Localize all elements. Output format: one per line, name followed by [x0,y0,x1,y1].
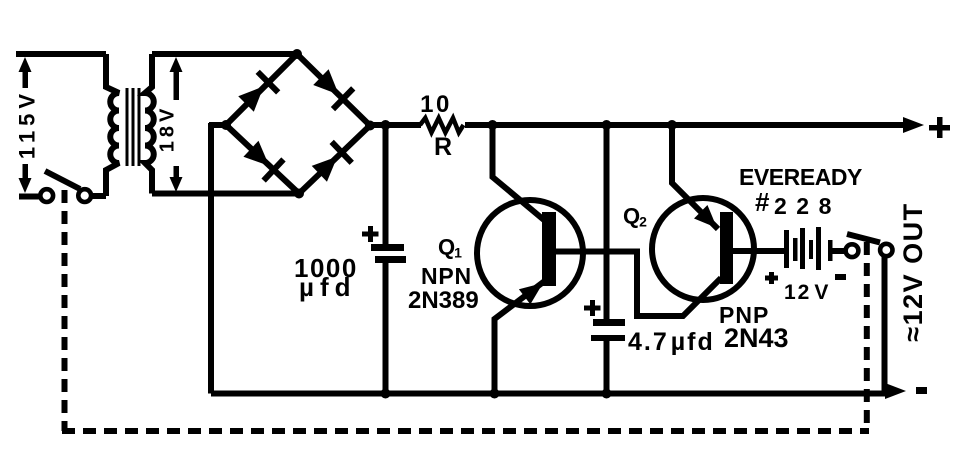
svg-text:2N43: 2N43 [724,323,789,353]
label + of C1 [362,226,379,242]
dashed gang line bottom horizontal [62,428,869,434]
label - of battery [835,274,846,280]
node: bridge bottom junction dot [294,189,304,199]
transistor Q2 circle [652,198,754,300]
svg-text:≈12V OUT: ≈12V OUT [898,202,928,341]
wire: Q2 emitter lead [672,125,718,229]
capacitor C2 4.7ufd top plate [593,319,625,326]
diode D2 (top to right) [311,67,356,112]
bridge rectifier: edge left-top [226,54,297,125]
wire: S1b to bottom rail [882,256,888,391]
node: C1 bottom junction dot [381,389,391,399]
transformer T1 primary winding [106,54,119,196]
switch S1a contact circle left [40,189,53,202]
wire: C1 bottom lead [383,263,389,394]
label - output [916,387,927,394]
output - arrowhead [885,383,906,399]
switch S1b contact circle right [880,244,892,256]
switch S1a contact circle right [78,189,91,202]
wire: battery to switch [832,248,845,254]
output + arrowhead [903,117,924,133]
bridge rectifier: edge left-bottom [226,125,299,194]
node: C2 bottom junction dot [602,389,612,399]
dimension arrow 18V lower [170,166,183,192]
wire: negative bus vertical (left) [208,123,214,394]
transformer T1 secondary winding [145,54,154,194]
Q1 emitter arrowhead [519,275,549,304]
wire: secondary bottom to bridge bottom node [152,191,299,197]
node: bridge left junction dot [221,120,231,130]
wire: bridge left node stub [209,122,226,128]
node: Q2 emitter junction dot [667,120,677,130]
wire: C2 bottom lead [604,341,610,394]
switch S1b blade [847,234,880,243]
dashed gang line left vertical [62,190,68,431]
capacitor C2 4.7ufd bottom plate [591,335,625,341]
wire: C2 top lead [604,125,610,319]
diode D3 (left to bottom) [241,138,286,182]
label + of C2 [584,300,601,316]
svg-text:228: 228 [774,193,841,219]
svg-text:µfd: µfd [299,272,357,302]
transformer T1 core [127,88,139,166]
wire: bottom rail [211,391,888,397]
switch S1b contact circle left [846,244,859,257]
svg-text:#: # [755,187,770,217]
wire: stub to left switch [19,194,39,200]
dimension arrow 18V upper [170,57,183,100]
bridge rectifier: edge top-right [297,54,370,126]
wire: switch to transformer primary bottom [91,193,106,199]
transistor Q1 circle [477,200,583,306]
transistor Q1 emitter lead with arrow [495,280,547,394]
resistor R 10 ohm zigzag [420,118,464,133]
node: bridge right junction dot [365,121,375,131]
dimension arrow 115V upper [19,57,32,88]
diode D1 (left to top) [236,70,281,115]
svg-text:10: 10 [420,91,452,118]
switch S1a blade [45,171,80,189]
wire: Q1 collector lead [493,125,545,220]
svg-text:4.7µfd: 4.7µfd [628,328,715,356]
node: C2 top junction dot [602,120,612,130]
svg-text:R: R [434,133,452,161]
wire: C1 top lead [383,125,389,244]
capacitor C1 1000ufd bottom plate [375,256,406,263]
transistor Q2 base bar [720,212,733,284]
dashed gang line right vertical [864,242,870,431]
wire: 115V primary top rail [16,51,106,57]
wire: top rail bridge to resistor [370,122,421,128]
Q2 emitter arrowhead [694,205,724,235]
wire: secondary top to bridge top node [152,51,299,57]
transistor Q1 base bar [542,212,556,286]
node: cap C1 top junction dot [381,120,391,130]
node: bridge top junction dot [292,49,302,59]
wire: Q2 base to battery [733,248,785,254]
capacitor C1 1000ufd top plate [371,244,404,251]
wire: top rail resistor to output arrow [465,122,908,128]
svg-text:115V: 115V [15,89,40,159]
diode D4 (bottom to right) [309,140,354,184]
svg-text:18V: 18V [157,105,179,153]
svg-text:12V: 12V [784,281,830,304]
node: Q1 collector junction dot [488,120,498,130]
svg-text:NPN: NPN [421,263,472,289]
bridge rectifier: edge bottom-right [299,126,370,194]
label + output [929,117,950,138]
dimension arrow 115V lower [19,164,32,193]
node: Q1 emitter bottom junction dot [490,389,500,399]
battery B1 plates [784,227,833,270]
svg-text:2N389: 2N389 [408,287,479,314]
wire: Q1 base to Q2 collector [556,252,721,317]
label + of battery [765,272,778,284]
